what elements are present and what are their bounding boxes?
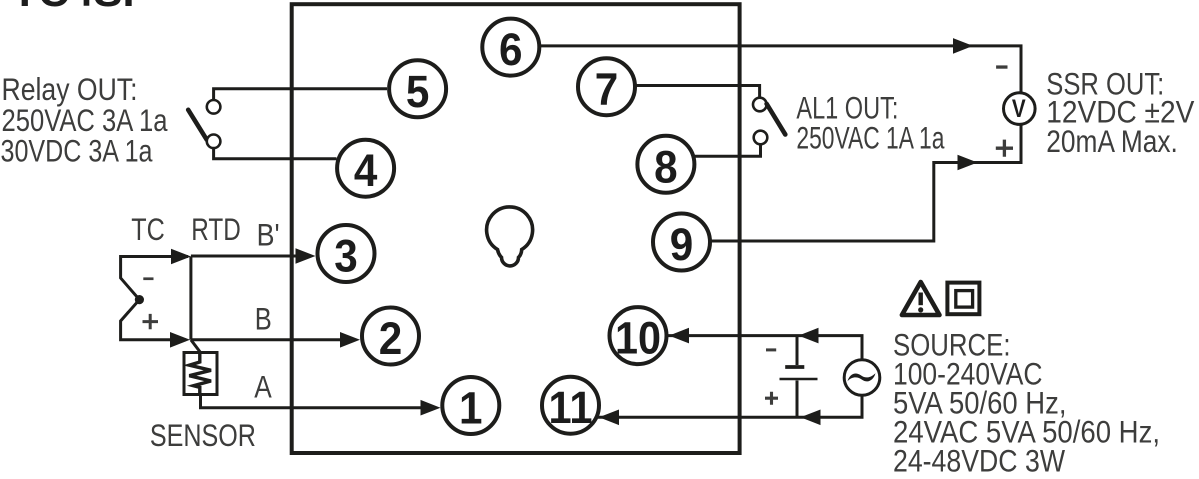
svg-text:A: A bbox=[254, 369, 272, 405]
svg-text:7: 7 bbox=[595, 64, 619, 115]
svg-text:6: 6 bbox=[499, 24, 523, 75]
pin 5 bbox=[389, 60, 446, 117]
svg-text:RTD: RTD bbox=[191, 211, 241, 247]
svg-text:TC4SP: TC4SP bbox=[12, 0, 152, 15]
DC plate bottom (long thin) bbox=[780, 378, 818, 381]
arrow into pin3 bbox=[296, 248, 316, 264]
warning triangle bbox=[902, 282, 940, 315]
arrow TC upper bbox=[171, 249, 191, 265]
pin 6 bbox=[482, 19, 539, 76]
svg-text:20mA Max.: 20mA Max. bbox=[1046, 123, 1178, 159]
wire pin6 to SSR minus bbox=[540, 46, 1021, 94]
relay switch blade bbox=[188, 110, 207, 140]
arrow at DC junction top bbox=[799, 328, 819, 344]
thermocouple junction dot bbox=[135, 295, 144, 304]
AC source circle bbox=[844, 360, 880, 396]
relay lower contact bbox=[207, 135, 221, 149]
DC plate top (short thick) bbox=[785, 365, 804, 369]
wire A to pin1 bbox=[201, 395, 426, 408]
pin 10 bbox=[610, 307, 667, 364]
wire AL1 lower contact to pin8 bbox=[695, 145, 761, 156]
svg-text:8: 8 bbox=[654, 141, 678, 192]
controller body outline bbox=[292, 4, 740, 453]
TC minus sign bbox=[143, 277, 153, 280]
svg-text:10: 10 bbox=[615, 313, 661, 364]
wire pin11 to source bbox=[598, 396, 862, 417]
arrow on pin6 wire bbox=[953, 38, 973, 54]
wire pin10 to source bbox=[668, 336, 862, 359]
svg-text:11: 11 bbox=[549, 382, 593, 433]
relay OUT label bbox=[1, 71, 168, 169]
pin 9 bbox=[653, 214, 710, 271]
wire B to pin2 bbox=[191, 338, 345, 341]
arrow into pin1 bbox=[421, 400, 441, 416]
pin 3 bbox=[318, 225, 375, 282]
svg-text:30VDC 3A 1a: 30VDC 3A 1a bbox=[1, 133, 153, 169]
svg-text:5: 5 bbox=[406, 66, 430, 117]
RTD resistor box bbox=[184, 353, 217, 395]
wire pin7 to AL1 upper contact bbox=[636, 86, 760, 97]
SSR OUT label bbox=[1046, 65, 1194, 158]
svg-text:TC: TC bbox=[131, 211, 165, 247]
relay upper contact bbox=[207, 100, 221, 114]
thermocouple symbol bbox=[121, 257, 188, 340]
class II outer square bbox=[947, 283, 979, 315]
svg-text:B: B bbox=[255, 301, 272, 337]
RTD jog to resistor bbox=[191, 340, 201, 353]
svg-text:SENSOR: SENSOR bbox=[150, 417, 256, 453]
AL1 lower contact bbox=[754, 131, 768, 145]
wire pin5 to relay upper contact bbox=[214, 89, 387, 99]
AL1 OUT label bbox=[796, 89, 944, 155]
pin 2 bbox=[362, 308, 419, 365]
arrow on pin9 wire bbox=[958, 155, 978, 171]
svg-text:9: 9 bbox=[670, 219, 694, 270]
pin 4 bbox=[337, 140, 394, 197]
AC sine symbol bbox=[848, 373, 876, 381]
class II inner square bbox=[956, 291, 973, 308]
svg-text:3: 3 bbox=[334, 231, 358, 282]
pin 8 bbox=[637, 136, 694, 193]
arrow TC lower bbox=[170, 332, 190, 348]
svg-text:24-48VDC 3W: 24-48VDC 3W bbox=[893, 442, 1065, 478]
warning exclamation bbox=[919, 293, 923, 306]
SOURCE label bbox=[893, 327, 1160, 479]
svg-text:4: 4 bbox=[354, 145, 378, 196]
pin 11 bbox=[542, 377, 599, 434]
arrow into pin11 bbox=[599, 410, 619, 426]
SSR plus sign bbox=[996, 140, 1013, 157]
source minus sign bbox=[766, 348, 776, 351]
svg-text:2: 2 bbox=[379, 313, 403, 364]
pin 7 bbox=[578, 58, 635, 115]
SSR minus sign bbox=[996, 65, 1007, 68]
source plus sign bbox=[765, 392, 778, 405]
wire pin9 to SSR plus bbox=[711, 125, 1021, 242]
DC stub vertical bbox=[796, 336, 799, 418]
arrow into pin10 bbox=[669, 328, 689, 344]
svg-text:1: 1 bbox=[459, 383, 483, 434]
svg-text:B': B' bbox=[257, 217, 280, 253]
wire relay lower contact to pin4 bbox=[214, 149, 337, 159]
keyhole bbox=[487, 207, 533, 266]
TC plus sign bbox=[143, 314, 159, 329]
SSR voltmeter bbox=[1004, 93, 1036, 125]
RTD resistor zigzag bbox=[189, 353, 211, 395]
arrow at DC junction bottom bbox=[801, 410, 821, 426]
svg-text:V: V bbox=[1012, 95, 1026, 123]
AL1 switch blade bbox=[767, 104, 786, 135]
pin 1 bbox=[442, 377, 499, 434]
AL1 upper contact bbox=[753, 98, 767, 112]
wire B' to pin3 bbox=[191, 256, 300, 340]
svg-text:250VAC 1A 1a: 250VAC 1A 1a bbox=[796, 120, 944, 156]
arrow into pin2 bbox=[340, 332, 360, 348]
